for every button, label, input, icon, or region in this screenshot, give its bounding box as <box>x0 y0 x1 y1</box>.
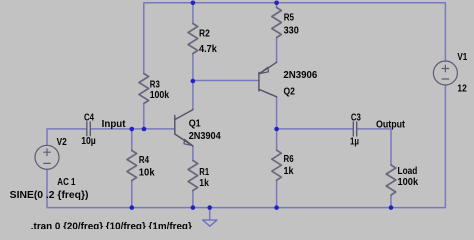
capacitor C3 <box>353 122 356 136</box>
junction Q2 collector / R6 / C3 <box>274 127 279 132</box>
capacitor C4 <box>87 122 91 136</box>
junction R4 input net <box>130 127 135 132</box>
svg-text:R6: R6 <box>284 154 295 165</box>
wire output net to C3 <box>277 128 354 130</box>
svg-text:V2: V2 <box>57 137 67 148</box>
svg-text:R3: R3 <box>150 79 160 90</box>
svg-text:V1: V1 <box>457 52 467 63</box>
wire Load bottom <box>390 195 392 208</box>
svg-text:C4: C4 <box>84 112 94 123</box>
svg-text:10µ: 10µ <box>81 136 96 147</box>
wire R6 top <box>276 129 278 150</box>
svg-text:R4: R4 <box>139 155 150 166</box>
resistor R2 <box>188 24 198 54</box>
junction R5 top rail <box>274 1 279 6</box>
svg-text:Load: Load <box>398 166 418 177</box>
junction R4 bottom rail <box>130 205 135 210</box>
junction R1 bottom rail <box>191 205 196 210</box>
svg-text:C3: C3 <box>351 112 361 123</box>
resistor R1 <box>188 161 198 191</box>
resistor Load <box>386 165 396 195</box>
wire R3 bottom <box>143 104 145 129</box>
wire R4 bottom <box>131 181 133 208</box>
wire R2 bottom to Q1 collector <box>192 54 194 110</box>
wire ground stub <box>209 208 211 220</box>
svg-text:1k: 1k <box>199 178 209 189</box>
svg-text:R5: R5 <box>284 12 295 23</box>
svg-text:.tran 0 {20/freq} {10/freq}: .tran 0 {20/freq} {10/freq} {1m/freq} <box>31 221 192 229</box>
junction ground stub <box>207 205 212 210</box>
svg-text:330: 330 <box>284 25 299 36</box>
transistor Q2 2N3906 pnp <box>259 62 277 97</box>
svg-text:SINE(0 .2 {freq}): SINE(0 .2 {freq}) <box>10 190 89 201</box>
wire V2 top to C4 <box>47 129 87 146</box>
resistor R5 <box>272 8 282 38</box>
junction R6 bottom rail <box>274 205 279 210</box>
svg-text:100k: 100k <box>398 177 419 188</box>
resistor R3 <box>139 74 149 104</box>
svg-text:2N3906: 2N3906 <box>283 70 318 81</box>
svg-text:1k: 1k <box>284 166 295 177</box>
svg-text:10k: 10k <box>139 168 155 179</box>
wire R2 top <box>192 3 194 24</box>
svg-text:AC 1: AC 1 <box>57 177 76 188</box>
wire C3 to Load corner <box>357 129 391 165</box>
voltage source V1 <box>433 61 457 85</box>
ground <box>203 220 217 226</box>
wire bottom rail ground net with V2 and V1 columns <box>47 85 445 207</box>
svg-text:Q1: Q1 <box>189 119 202 130</box>
svg-text:2N3904: 2N3904 <box>189 131 222 142</box>
junction Q1 collector / Q2 base <box>191 79 196 84</box>
wire Q2 base <box>193 80 259 82</box>
svg-text:12: 12 <box>457 83 466 94</box>
wire R5 bottom to Q2 emitter <box>276 38 278 63</box>
wire R4 top <box>131 129 133 151</box>
junction Load bottom rail <box>389 205 394 210</box>
transistor Q1 2N3904 npn <box>175 110 193 146</box>
wire R5 top <box>276 3 278 8</box>
resistor R6 <box>272 150 282 180</box>
svg-text:Q2: Q2 <box>284 86 295 97</box>
svg-text:R2: R2 <box>199 29 210 40</box>
resistor R4 <box>127 151 137 181</box>
junction R2 top rail <box>191 1 196 6</box>
wire R1 bottom <box>192 191 194 208</box>
svg-text:100k: 100k <box>150 90 170 101</box>
wire top rail VCC with R3 drop and V1 column <box>144 3 446 74</box>
wire R6 bottom <box>276 180 278 207</box>
svg-text:Output: Output <box>376 119 406 130</box>
wire C4 to Q1 base (Input net) <box>90 128 174 130</box>
svg-text:Input: Input <box>102 119 127 130</box>
voltage source V2 <box>35 145 59 169</box>
junction R3 input net <box>142 127 147 132</box>
svg-text:4.7k: 4.7k <box>199 44 217 55</box>
wire Q2 collector down <box>276 97 278 129</box>
wire Q1 emitter to R1 <box>192 146 194 161</box>
svg-text:1µ: 1µ <box>350 137 359 148</box>
svg-text:R1: R1 <box>199 167 209 178</box>
